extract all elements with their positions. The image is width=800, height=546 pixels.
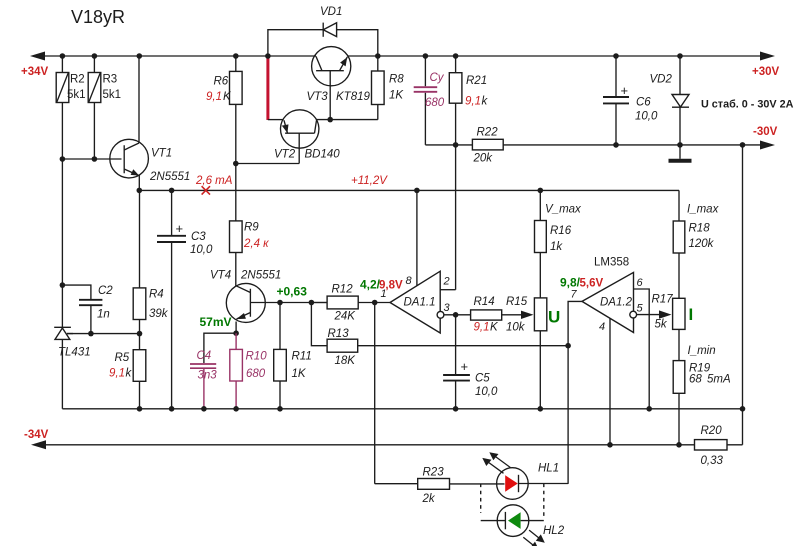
junction VT3 emitter R8	[375, 53, 381, 59]
junction R11 bottom	[277, 406, 283, 412]
svg-text:2k: 2k	[422, 493, 436, 505]
junction R2 top	[60, 53, 66, 59]
junction pin8 top	[414, 188, 420, 194]
svg-text:VD2: VD2	[650, 74, 673, 86]
junction C2 branch	[60, 282, 66, 288]
svg-text:2N5551: 2N5551	[149, 171, 190, 183]
svg-text:I_max: I_max	[687, 204, 720, 216]
svg-text:24K: 24K	[334, 311, 357, 323]
node 57mV label	[200, 315, 232, 329]
svg-text:R17: R17	[652, 294, 674, 306]
svg-text:C5: C5	[475, 373, 490, 385]
svg-text:K: K	[223, 91, 232, 103]
node HL2 arrows	[523, 530, 545, 546]
node +30V label	[752, 66, 780, 78]
resistor R20	[695, 425, 728, 467]
wire -34V rail	[35, 444, 743, 446]
wire R16 column	[539, 190, 541, 298]
pin 8 supply DA1.1	[406, 190, 417, 287]
transistor VT4	[210, 270, 281, 334]
capacitor C5	[443, 315, 498, 409]
resistor R6	[206, 56, 242, 221]
junction VD2 bottom	[677, 142, 683, 148]
svg-text:R14: R14	[474, 296, 495, 308]
svg-text:R10: R10	[246, 351, 268, 363]
svg-text:5k1: 5k1	[103, 89, 122, 101]
svg-text:680: 680	[425, 97, 445, 109]
junction right column top	[740, 142, 746, 148]
capacitor C2	[62, 285, 113, 334]
ground	[669, 145, 692, 161]
svg-text:+34V: +34V	[21, 66, 49, 78]
node 9,8/5,6V label	[560, 276, 603, 290]
svg-text:R9: R9	[244, 222, 259, 234]
svg-text:U стаб. 0 - 30V 2А: U стаб. 0 - 30V 2А	[701, 99, 794, 111]
junction R19 rail	[676, 442, 682, 448]
svg-text:5: 5	[637, 303, 644, 315]
svg-text:DA1.2: DA1.2	[600, 297, 633, 309]
svg-text:1K: 1K	[389, 90, 404, 102]
wire red highlighted	[266, 56, 269, 120]
junction Cy top	[423, 53, 429, 59]
junction R21 R22	[453, 142, 459, 148]
node -34V label	[24, 429, 49, 441]
svg-text:U: U	[548, 308, 560, 327]
junction red top	[265, 53, 271, 59]
svg-text:9,1: 9,1	[474, 322, 490, 334]
wire top +34V rail	[33, 55, 764, 57]
resistor R9	[230, 221, 270, 286]
svg-text:2,6 mA: 2,6 mA	[195, 175, 233, 187]
svg-text:HL2: HL2	[543, 525, 565, 537]
svg-text:-30V: -30V	[753, 126, 778, 138]
resistor R10	[230, 333, 267, 409]
svg-text:18K: 18K	[335, 355, 357, 367]
node +11,2V label	[351, 175, 388, 187]
svg-text:C4: C4	[197, 350, 212, 362]
svg-text:3n3: 3n3	[198, 370, 218, 382]
svg-text:R16: R16	[550, 225, 572, 237]
svg-text:5k: 5k	[655, 319, 668, 331]
junction C6 bottom	[613, 142, 619, 148]
svg-text:9,8/: 9,8/	[560, 276, 581, 290]
junction VD2 top	[677, 53, 683, 59]
svg-text:6: 6	[637, 277, 644, 289]
wire HL2 dashed right	[543, 484, 545, 517]
svg-text:DA1.1: DA1.1	[404, 297, 436, 309]
svg-text:VT1: VT1	[151, 148, 172, 160]
svg-text:VT2: VT2	[274, 149, 296, 161]
svg-text:KT819: KT819	[336, 91, 370, 103]
svg-text:V18yR: V18yR	[71, 7, 125, 27]
node arrow -30V right	[760, 141, 775, 150]
svg-text:R15: R15	[506, 296, 528, 308]
junction C5 bottom	[453, 406, 459, 412]
junction R12 right	[372, 300, 378, 306]
resistor R22	[425, 127, 764, 165]
svg-text:10,0: 10,0	[475, 386, 498, 398]
wire TL431 ref line	[67, 333, 140, 335]
svg-text:8: 8	[406, 275, 413, 287]
junction C6 top	[613, 53, 619, 59]
svg-text:+30V: +30V	[752, 66, 780, 78]
svg-text:3: 3	[444, 302, 451, 314]
svg-text:+11,2V: +11,2V	[351, 175, 388, 187]
node arrow -34V left	[31, 440, 46, 449]
resistor R2	[56, 56, 85, 159]
svg-text:R23: R23	[423, 467, 445, 479]
junction C2 bottom	[88, 331, 94, 337]
resistor R14	[471, 296, 502, 334]
pin 1 label DA1.1	[381, 288, 387, 300]
junction pin6 rail	[646, 406, 652, 412]
transistor VT1	[110, 56, 190, 190]
node HL1 arrows	[482, 452, 510, 473]
capacitor C6	[603, 56, 658, 145]
svg-text:C3: C3	[191, 231, 206, 243]
wire VT4 base node line	[266, 302, 328, 304]
svg-text:+: +	[621, 83, 629, 98]
diode TL431	[54, 327, 90, 409]
wire +11.2V line	[139, 189, 679, 191]
junction right column common rail	[740, 406, 746, 412]
wire R14 to R15 wiper arrow	[502, 311, 534, 319]
wire VT2 emitter lead	[268, 119, 284, 121]
pin 5 output DA1.2	[630, 303, 672, 319]
svg-text:R13: R13	[328, 328, 350, 340]
resistor R8	[372, 56, 405, 120]
svg-text:1n: 1n	[97, 309, 110, 321]
junction VT1 collector top	[137, 53, 143, 59]
junction R15 bottom rail	[538, 406, 544, 412]
svg-text:+0,63: +0,63	[277, 285, 308, 299]
op-amp DA1.2	[582, 272, 634, 332]
node I label	[689, 305, 694, 324]
resistor R19	[673, 345, 731, 393]
resistor R5	[109, 334, 146, 409]
resistor R16	[535, 204, 583, 254]
svg-text:+: +	[176, 221, 184, 236]
junction C3 bottom	[169, 406, 175, 412]
pin 7 output DA1.2	[568, 289, 582, 484]
transistor VT3	[307, 47, 371, 120]
svg-text:9,1: 9,1	[465, 96, 481, 108]
svg-text:R2: R2	[70, 74, 85, 86]
node current break cross	[202, 186, 210, 194]
node -30V label	[753, 126, 778, 138]
svg-text:R3: R3	[103, 74, 118, 86]
svg-text:120k: 120k	[689, 238, 715, 250]
svg-text:R21: R21	[466, 75, 487, 87]
node +34V label	[21, 66, 49, 78]
diode VD1	[268, 6, 378, 56]
svg-text:TL431: TL431	[58, 347, 91, 359]
svg-text:2: 2	[443, 276, 450, 288]
svg-text:VT3: VT3	[307, 91, 329, 103]
wire R17 to R19	[678, 329, 680, 360]
junction C4 bottom	[201, 406, 207, 412]
svg-text:K: K	[490, 322, 499, 334]
svg-text:1K: 1K	[292, 368, 307, 380]
svg-text:VD1: VD1	[320, 6, 342, 18]
svg-text:9,1: 9,1	[206, 91, 222, 103]
svg-text:R12: R12	[332, 284, 354, 296]
svg-text:I: I	[689, 305, 694, 324]
svg-text:I_min: I_min	[688, 345, 716, 357]
svg-text:C6: C6	[636, 97, 651, 109]
junction R12 left	[309, 300, 315, 306]
svg-text:5mA: 5mA	[707, 374, 731, 386]
resistor R11	[274, 303, 312, 409]
capacitor C4	[190, 333, 236, 409]
wire R15 bottom to rail	[539, 331, 541, 409]
pin 4 supply DA1.2	[599, 318, 610, 445]
svg-text:BD140: BD140	[305, 149, 341, 161]
wire VT2 collector lead	[317, 119, 378, 121]
svg-text:R20: R20	[701, 425, 723, 437]
led HL2	[481, 505, 565, 537]
title V18yR	[71, 7, 125, 27]
resistor R13	[311, 303, 568, 368]
svg-text:680: 680	[246, 368, 266, 380]
svg-text:LM358: LM358	[594, 257, 629, 269]
junction C3 top	[169, 188, 175, 194]
pin 6 stub DA1.2	[634, 277, 650, 409]
svg-text:R4: R4	[149, 289, 164, 301]
junction pin7 R13	[565, 343, 571, 349]
junction pin4 rail	[607, 442, 613, 448]
junction R11 top	[277, 300, 283, 306]
junction VT1 emitter	[137, 188, 143, 194]
svg-text:R5: R5	[115, 352, 130, 364]
junction pin3 node	[453, 312, 459, 318]
svg-text:R18: R18	[689, 223, 711, 235]
svg-text:0,33: 0,33	[701, 455, 724, 467]
node U stab label	[701, 99, 794, 111]
svg-text:1: 1	[381, 288, 387, 300]
capacitor C3	[157, 190, 213, 408]
svg-text:68: 68	[689, 374, 702, 386]
resistor R21	[449, 56, 488, 290]
wire VT1 base line	[62, 158, 121, 160]
svg-text:1k: 1k	[550, 241, 563, 253]
node 2,6 mA label	[195, 175, 233, 187]
svg-text:5,6V: 5,6V	[580, 278, 604, 290]
diode VD2	[650, 56, 690, 145]
node +0,63 label	[277, 285, 308, 299]
junction R3 top	[92, 53, 98, 59]
transistor VT2	[236, 110, 340, 164]
svg-text:Cy: Cy	[430, 72, 445, 84]
svg-text:R8: R8	[389, 74, 404, 86]
resistor R4	[133, 190, 169, 333]
svg-text:HL1: HL1	[538, 463, 559, 475]
node arrow +30V right	[760, 52, 775, 61]
wire DA1.1 output vertical	[374, 303, 376, 484]
svg-text:4,2/: 4,2/	[360, 278, 381, 292]
svg-text:10,0: 10,0	[635, 111, 658, 123]
resistor R23	[375, 467, 505, 506]
led HL1	[497, 463, 568, 500]
wire R18 feed	[678, 190, 680, 221]
svg-text:57mV: 57mV	[200, 315, 232, 329]
svg-text:R6: R6	[214, 76, 229, 88]
svg-text:R11: R11	[292, 351, 312, 363]
svg-text:20k: 20k	[473, 153, 494, 165]
wire right column	[742, 145, 744, 445]
junction R5 bottom	[137, 406, 143, 412]
wire HL2 dashed left	[480, 484, 482, 514]
junction R6 top	[233, 53, 239, 59]
wire R19 to -34V rail	[678, 393, 680, 445]
pin 2 stub DA1.1	[440, 276, 455, 290]
junction R4 R5 TL431	[137, 331, 143, 337]
svg-text:9,1: 9,1	[109, 368, 125, 380]
svg-text:4: 4	[599, 321, 605, 333]
junction base R2	[60, 156, 66, 162]
node 4,2/9,8V label	[360, 278, 403, 292]
capacitor Cy	[414, 56, 445, 145]
svg-text:R22: R22	[477, 127, 499, 139]
svg-text:39k: 39k	[149, 308, 169, 320]
resistor R3	[88, 56, 121, 159]
potentiometer R15	[506, 296, 547, 334]
svg-text:2,4 к: 2,4 к	[243, 238, 269, 250]
pin 3 output DA1.1	[437, 302, 471, 318]
junction R6 VT2 base	[233, 161, 239, 167]
wire R18 to R17	[678, 253, 680, 298]
junction R16 top	[538, 188, 544, 194]
junction R10 bottom	[233, 406, 239, 412]
svg-text:10k: 10k	[506, 322, 526, 334]
junction VT3 base	[327, 117, 333, 123]
svg-text:V_max: V_max	[545, 204, 582, 216]
wire common rail	[62, 408, 742, 410]
node LM358 label	[594, 257, 629, 269]
svg-text:-34V: -34V	[24, 429, 49, 441]
svg-text:5k1: 5k1	[67, 89, 86, 101]
junction VT4 emitter	[233, 330, 239, 336]
junction R21 top	[453, 53, 459, 59]
resistor R18	[673, 204, 719, 254]
svg-text:10,0: 10,0	[190, 244, 213, 256]
junction base R3	[92, 156, 98, 162]
svg-text:VT4: VT4	[210, 270, 231, 282]
svg-text:7: 7	[571, 289, 578, 301]
potentiometer R17	[652, 294, 686, 331]
svg-text:+: +	[461, 359, 469, 374]
wire left column	[61, 159, 63, 327]
op-amp DA1.1	[390, 271, 440, 333]
svg-text:C2: C2	[98, 285, 113, 297]
resistor R12	[311, 284, 390, 323]
node arrow +34V left	[30, 52, 45, 61]
node U label	[548, 308, 560, 327]
svg-text:2N5551: 2N5551	[240, 270, 281, 282]
